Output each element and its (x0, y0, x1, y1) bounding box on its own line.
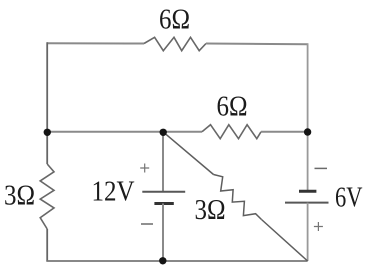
wire left vertical lower (46, 229, 48, 261)
wire left vertical upper (46, 42, 48, 164)
wire middle horizontal right segment (261, 131, 308, 133)
node dot middle-left (44, 129, 51, 136)
minus sign of 12V (141, 223, 153, 225)
svg-text:6Ω: 6Ω (217, 90, 248, 122)
wire middle vertical lower (162, 204, 164, 262)
wire right vertical lower (307, 203, 309, 261)
battery V2 6V long plate (positive, bottom) (285, 202, 329, 204)
wire middle horizontal left segment (47, 131, 202, 133)
node dot middle-right (304, 128, 311, 135)
svg-text:12V: 12V (92, 175, 136, 207)
minus sign of 6V (315, 167, 328, 169)
plus sign of 6V (314, 222, 323, 231)
wire diagonal upper segment (163, 132, 214, 175)
node dot middle-center (160, 129, 167, 136)
svg-text:3Ω: 3Ω (195, 193, 226, 225)
node dot bottom-center (159, 257, 166, 264)
svg-text:6V: 6V (335, 181, 363, 213)
battery V1 12V long plate (positive, top) (142, 191, 185, 193)
battery V2 6V short plate (negative, top) (299, 190, 316, 193)
plus sign of 12V (140, 164, 149, 173)
svg-text:3Ω: 3Ω (4, 179, 35, 211)
wire diagonal lower segment (262, 220, 308, 262)
wire top-left horizontal segment (47, 42, 144, 44)
battery V1 12V short plate (negative, bottom) (154, 202, 173, 205)
resistor R-top 6ohm zigzag (144, 37, 206, 50)
wire bottom horizontal (46, 260, 307, 262)
wire middle vertical upper (12V branch) (162, 132, 164, 192)
resistor R-diag 3ohm zigzag (214, 175, 262, 220)
resistor R-left 3ohm zigzag (40, 164, 54, 229)
svg-text:6Ω: 6Ω (159, 3, 190, 35)
wire right vertical upper (307, 43, 309, 191)
wire top-right horizontal segment (206, 43, 308, 46)
resistor R-mid 6ohm zigzag (202, 125, 261, 139)
